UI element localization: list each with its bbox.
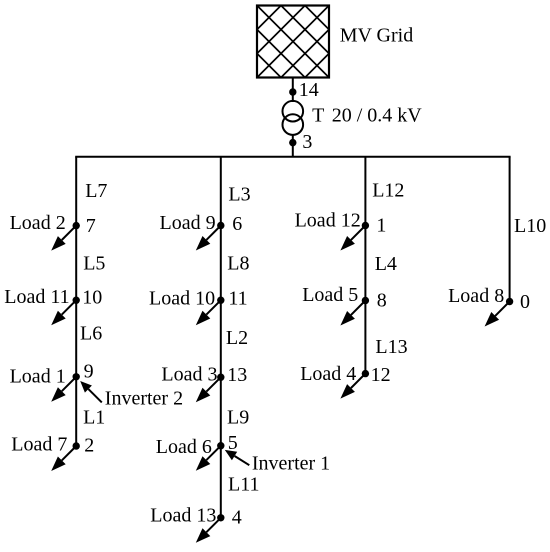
transformer label: T 20 / 0.4 kV [312,105,422,127]
node 5 [217,442,224,449]
wire: feeder 3 [364,157,366,374]
load arrow: Load 11 at node 10 [51,300,76,325]
svg-text:13: 13 [227,364,247,386]
load arrow: Load 8 at node 0 [485,302,510,327]
node 8 [362,297,369,304]
node 4 [217,514,224,521]
load arrow: Load 2 at node 7 [51,226,76,251]
svg-text:1: 1 [376,215,386,237]
svg-text:Load 3: Load 3 [161,363,217,385]
svg-text:L5: L5 [83,253,105,275]
svg-text:2: 2 [84,435,94,457]
node 11 [217,297,224,304]
node 2 [73,442,80,449]
load arrow: Load 9 at node 6 [196,226,221,251]
svg-text:Load 7: Load 7 [11,433,67,455]
svg-text:Load 12: Load 12 [295,209,361,231]
svg-text:Inverter 2: Inverter 2 [105,388,183,410]
node 3 [289,139,296,146]
svg-text:L8: L8 [227,253,249,275]
svg-text:11: 11 [228,288,247,310]
node 7 [73,222,80,229]
svg-text:L10: L10 [514,215,546,237]
svg-text:T: T [312,105,324,127]
wire: feeder 2 [220,157,222,518]
wire: transformer to bus [292,135,294,157]
node 12 [362,370,369,377]
svg-text:4: 4 [232,507,242,529]
svg-text:L12: L12 [372,180,404,202]
svg-text:8: 8 [377,290,387,312]
svg-text:MV Grid: MV Grid [340,24,414,46]
wire: feeder 4 [509,157,511,302]
svg-text:Load 13: Load 13 [150,504,216,526]
svg-text:3: 3 [302,131,312,153]
svg-text:12: 12 [371,364,391,386]
transformer T (two-winding) [283,101,304,135]
load arrow: Load 1 at node 9 [51,377,76,402]
svg-text:Load 11: Load 11 [4,286,69,308]
svg-text:Load 4: Load 4 [300,363,356,385]
node 14 [289,88,296,95]
svg-text:L2: L2 [226,327,248,349]
svg-text:6: 6 [232,213,242,235]
node 10 [73,297,80,304]
load arrow: Load 5 at node 8 [340,301,365,326]
MV grid source (hatched box) [257,6,329,78]
svg-text:Load 10: Load 10 [149,288,215,310]
load arrow: Load 13 at node 4 [196,518,221,543]
svg-text:9: 9 [84,361,94,383]
wire: grid to transformer [292,78,294,103]
wire: feeder 1 [75,157,77,446]
load arrow: Load 3 at node 13 [196,377,221,402]
svg-text:20 / 0.4 kV: 20 / 0.4 kV [332,105,423,127]
svg-text:7: 7 [86,215,96,237]
svg-text:L13: L13 [375,336,407,358]
node 13 [217,374,224,381]
svg-text:Load 2: Load 2 [10,212,66,234]
svg-text:L7: L7 [85,180,107,202]
svg-text:Load 1: Load 1 [10,366,66,388]
svg-text:L11: L11 [228,474,259,496]
svg-text:Load 9: Load 9 [160,212,216,234]
svg-text:L3: L3 [228,183,250,205]
load arrow: Load 10 at node 11 [196,300,221,325]
inverter 2 arrow (points to node 9) [80,381,102,402]
node 0 [506,298,513,305]
svg-text:L4: L4 [375,253,397,275]
node 9 [73,373,80,380]
load arrow: Load 4 at node 12 [340,374,365,399]
svg-text:Load 5: Load 5 [302,284,358,306]
svg-text:L1: L1 [83,407,105,429]
svg-text:10: 10 [82,286,102,308]
svg-text:L6: L6 [80,323,102,345]
node 1 [362,222,369,229]
svg-text:Load 6: Load 6 [156,436,212,458]
svg-text:0: 0 [520,291,530,313]
svg-text:14: 14 [299,79,319,101]
inverter 1 arrow (points to node 5) [225,450,250,465]
svg-text:Inverter 1: Inverter 1 [252,453,330,475]
load arrow: Load 6 at node 5 [196,446,221,471]
svg-text:L9: L9 [227,406,249,428]
load arrow: Load 7 at node 2 [51,446,76,471]
node 6 [217,222,224,229]
svg-text:Load 8: Load 8 [448,285,504,307]
load arrow: Load 12 at node 1 [340,226,365,251]
wire: LV bus [75,156,510,158]
